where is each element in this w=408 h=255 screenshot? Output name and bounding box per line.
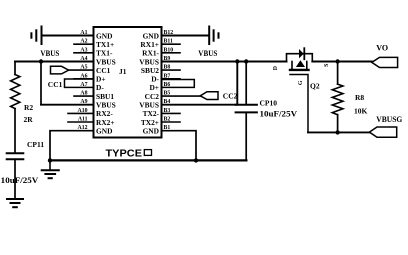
svg-text:D+: D+ [149, 83, 159, 92]
junction node R8 top [335, 59, 339, 63]
no-connect box B6 [162, 80, 195, 88]
svg-text:B10: B10 [164, 47, 174, 53]
pin B10 RX1- [142, 47, 173, 57]
svg-text:B12: B12 [164, 30, 174, 36]
svg-text:A1: A1 [80, 30, 87, 36]
pin A3 TX1- [80, 47, 113, 57]
pin B6 D+ [149, 82, 170, 92]
svg-text:VBUS: VBUS [139, 101, 159, 110]
junction node B4 riser [235, 59, 239, 63]
svg-text:GND: GND [143, 127, 159, 136]
pin A4 VBUS [80, 56, 115, 66]
svg-text:A9: A9 [80, 99, 87, 105]
junction node B1 riser [194, 158, 198, 162]
ground symbol bottom-left [7, 199, 23, 207]
wire B4 VBUS riser [162, 62, 238, 105]
ground symbol middle [42, 160, 59, 178]
wire A2 stub [74, 43, 94, 45]
svg-text:S: S [324, 64, 330, 67]
svg-text:A5: A5 [80, 65, 87, 71]
pin A6 D+ [80, 73, 105, 83]
svg-text:VBUSG: VBUSG [376, 115, 402, 124]
wire A12 GND down to bus [50, 131, 94, 161]
pin A2 TX1+ [80, 39, 114, 49]
svg-text:B6: B6 [164, 82, 171, 88]
svg-text:GND: GND [96, 127, 112, 136]
svg-text:SBU2: SBU2 [141, 66, 159, 75]
svg-text:G: G [298, 80, 304, 85]
svg-text:VBUS: VBUS [40, 49, 59, 58]
svg-text:B8: B8 [164, 65, 171, 71]
ground symbol top-left [31, 27, 41, 45]
ground symbol top-right [209, 27, 218, 45]
svg-text:10uF/25V: 10uF/25V [260, 110, 298, 119]
wire B11 stub [162, 43, 181, 45]
svg-text:TX2+: TX2+ [141, 118, 159, 127]
svg-text:VBUS: VBUS [198, 49, 217, 58]
pin B8 SBU2 [141, 65, 170, 75]
pin B11 RX1+ [140, 39, 173, 49]
port VBUSG [369, 127, 396, 137]
svg-text:VO: VO [376, 43, 388, 52]
pin A1 GND [80, 30, 112, 40]
junction node R8 bottom [335, 130, 339, 134]
gate lead [290, 75, 308, 133]
signal tag CC2 [200, 92, 218, 100]
svg-text:A4: A4 [80, 56, 87, 62]
label TYPCE footprint [106, 147, 152, 159]
wire R2 to CP11 [14, 109, 16, 153]
IC J1 USB Type-C connector [94, 27, 162, 138]
svg-text:RX1-: RX1- [142, 49, 159, 58]
junction node VBUS [39, 59, 43, 63]
body diode loop [287, 54, 313, 62]
wire A8 stub [74, 95, 94, 97]
wire A6 stub [74, 78, 94, 80]
wire A10 stub [68, 112, 94, 114]
wire VBUS rail A4 to A9 [40, 62, 42, 105]
svg-text:CP10: CP10 [260, 99, 278, 108]
pin A5 CC1 [80, 65, 110, 75]
svg-text:Q2: Q2 [310, 82, 320, 91]
wire B1 GND to bus [162, 131, 197, 161]
wire VBUS down to R2 [14, 62, 16, 75]
svg-text:GND: GND [96, 31, 112, 40]
pin A9 VBUS [80, 99, 115, 109]
pin B5 CC2 [145, 91, 171, 101]
svg-text:A8: A8 [80, 91, 87, 97]
no-connect box A7 [65, 79, 94, 87]
wire B10 stub [162, 52, 181, 54]
wire B9 VBUS to Q2 drain [162, 61, 287, 63]
svg-text:J1: J1 [119, 67, 127, 76]
pin B4 VBUS [139, 99, 170, 109]
svg-text:B1: B1 [164, 125, 171, 131]
svg-text:10uF/25V: 10uF/25V [1, 176, 39, 185]
svg-text:A3: A3 [80, 47, 87, 53]
junction node GND bus left [48, 158, 52, 162]
svg-text:TYPCE: TYPCE [106, 147, 143, 159]
wire B8 stub [162, 69, 181, 71]
wire gate to VBUSG [308, 131, 369, 133]
pin A8 SBU1 [80, 91, 114, 101]
pin B3 TX2- [143, 108, 171, 118]
svg-text:R8: R8 [355, 93, 364, 102]
wire A1 GND to ground [42, 35, 94, 37]
pin A11 RX2+ [78, 117, 115, 127]
svg-text:10K: 10K [354, 107, 368, 116]
pin B7 D- [151, 73, 170, 83]
svg-text:A10: A10 [78, 108, 88, 114]
svg-text:GND: GND [143, 31, 159, 40]
svg-text:CC1: CC1 [96, 66, 111, 75]
svg-text:CP11: CP11 [27, 140, 44, 149]
svg-text:D-: D- [96, 83, 104, 92]
wire B2 stub [162, 121, 181, 123]
svg-text:CC1: CC1 [48, 80, 63, 89]
svg-text:A12: A12 [78, 125, 88, 131]
wire B7 stub [162, 78, 181, 80]
svg-text:B4: B4 [164, 99, 171, 105]
signal tag CC1 [51, 66, 69, 74]
port VO [372, 57, 398, 67]
channel bar [290, 69, 309, 71]
svg-text:B3: B3 [164, 108, 171, 114]
wire Q2 source to VO [312, 61, 372, 63]
pin A7 D- [80, 82, 104, 92]
junction node CP10 [244, 59, 248, 63]
wire CP11 to ground [14, 159, 16, 198]
svg-text:B9: B9 [164, 56, 171, 62]
wire B3 stub [162, 112, 181, 114]
transistor Q2 PMOS [273, 48, 330, 132]
svg-text:TX1-: TX1- [96, 49, 113, 58]
wire A3 stub [74, 52, 94, 54]
svg-text:B11: B11 [164, 39, 173, 45]
wire A11 stub [68, 121, 94, 123]
channel notch [291, 62, 293, 69]
svg-text:B5: B5 [164, 91, 171, 97]
wire VBUS to pin A4 [15, 61, 94, 63]
wire pin A9 VBUS [41, 104, 94, 106]
svg-text:RX2+: RX2+ [96, 118, 115, 127]
svg-text:A7: A7 [80, 82, 87, 88]
svg-text:VBUS: VBUS [96, 101, 116, 110]
svg-text:A2: A2 [80, 39, 87, 45]
resistor R2 [11, 75, 20, 109]
pin A10 RX2- [78, 108, 114, 118]
svg-text:D: D [273, 66, 279, 70]
resistor R8 [332, 62, 343, 133]
substrate arrow [296, 60, 305, 67]
wire B5 CC2 stub [162, 95, 201, 97]
svg-text:2R: 2R [24, 115, 34, 124]
capacitor CP10 [236, 62, 257, 161]
pin B9 VBUS [139, 56, 170, 66]
svg-text:CC2: CC2 [223, 91, 238, 100]
svg-text:A6: A6 [80, 73, 87, 79]
svg-text:B2: B2 [164, 117, 171, 123]
wire B12 GND to ground [162, 35, 209, 37]
pin B2 TX2+ [141, 117, 171, 127]
pin A12 GND [78, 125, 113, 135]
wire GND bus [50, 159, 246, 161]
pin B1 GND [143, 125, 171, 135]
svg-text:A11: A11 [78, 117, 88, 123]
wire A5 CC1 stub [69, 69, 94, 71]
svg-text:R2: R2 [24, 103, 33, 112]
capacitor CP11 [7, 153, 24, 159]
svg-text:B7: B7 [164, 73, 171, 79]
pin B12 GND [143, 30, 174, 40]
